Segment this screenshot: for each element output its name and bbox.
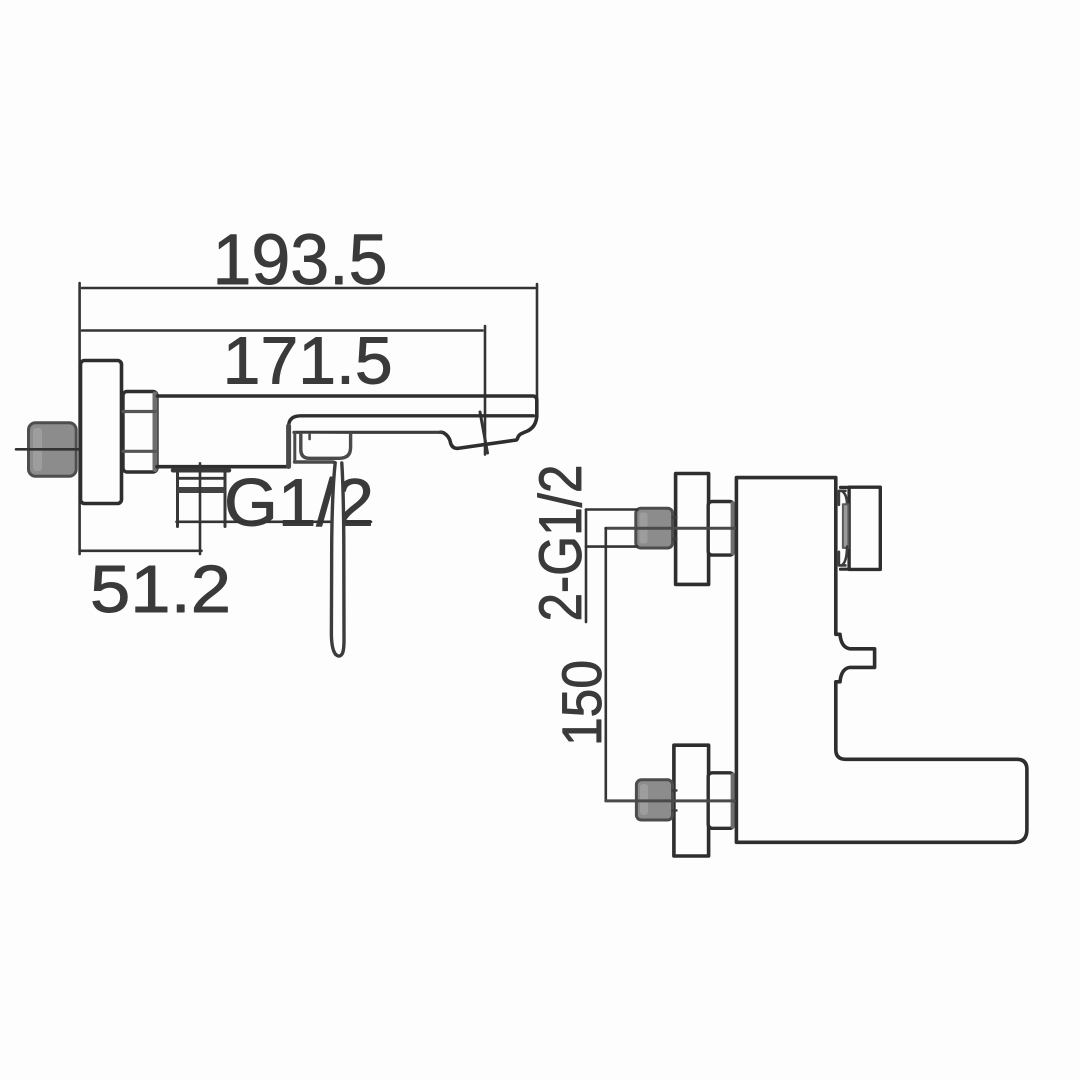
bottom hex nut xyxy=(708,773,734,829)
svg-text:193.5: 193.5 xyxy=(213,220,388,300)
svg-text:171.5: 171.5 xyxy=(223,324,393,399)
extension line right of 193.5 xyxy=(536,284,539,402)
svg-text:G1/2: G1/2 xyxy=(224,466,374,541)
knob collar bottom bracket xyxy=(839,547,847,566)
top inlet block highlight xyxy=(640,513,648,544)
shower outlet centerline xyxy=(199,463,202,554)
wall knob (gray) xyxy=(29,423,77,476)
dimension line 171.5 xyxy=(82,329,483,332)
hex nut (side view) xyxy=(123,392,157,473)
knob top edge extension xyxy=(841,486,850,489)
extension line right of 171.5 xyxy=(484,326,487,455)
handle mount inner line xyxy=(293,433,296,461)
svg-text:2-G1/2: 2-G1/2 xyxy=(527,465,594,622)
bottom inlet block highlight xyxy=(640,784,648,815)
top wall flange (front) xyxy=(676,474,709,585)
dimension line 193.5 xyxy=(82,287,535,290)
grip tick xyxy=(308,435,311,440)
top inlet stem lines xyxy=(673,516,677,518)
diverter knob outer (right side) xyxy=(849,487,880,569)
shower outlet pipe left edge xyxy=(176,471,179,527)
wall flange plate xyxy=(81,361,122,504)
bottom inlet stem lines xyxy=(673,789,677,791)
knob collar gray band xyxy=(843,504,849,548)
handle mount left edge xyxy=(286,426,291,467)
dimension line 51.2 xyxy=(80,549,202,552)
lever handle grip xyxy=(301,434,351,459)
hex nut right shading xyxy=(153,394,158,470)
dimension line 150 (vertical) xyxy=(604,528,607,801)
leader line to inlet bottom xyxy=(586,545,637,548)
bottom hex nut right shading xyxy=(731,775,735,827)
spout underside line xyxy=(294,431,441,434)
bottom inlet centerline xyxy=(606,799,735,802)
bottom wall flange (front) xyxy=(674,745,709,856)
extension line left (serves 193.5 / 171.5 / 51.2) xyxy=(78,283,81,554)
spout body outline top xyxy=(158,396,537,417)
hex nut facet line upper xyxy=(123,410,155,413)
handle mount bottom edge xyxy=(295,462,337,466)
top hex nut right shading xyxy=(731,504,735,554)
top inlet centerline xyxy=(606,527,735,530)
top inlet block (gray) xyxy=(636,508,673,548)
top hex nut xyxy=(708,502,734,556)
body bottom edge xyxy=(157,465,289,469)
shower outlet thread band xyxy=(178,487,226,493)
G1/2 leader underline xyxy=(177,520,372,523)
spout underside right (outlet bump) xyxy=(441,416,537,449)
svg-text:150: 150 xyxy=(550,660,613,746)
svg-text:51.2: 51.2 xyxy=(90,552,231,627)
shower outlet flange line xyxy=(173,468,229,473)
shower outlet pipe right edge xyxy=(224,471,227,527)
2-G1/2 underline xyxy=(585,510,588,623)
oblique tick on 171.5 extension xyxy=(480,412,488,453)
knob bottom edge extension xyxy=(841,568,850,571)
leader line to inlet top xyxy=(586,508,637,511)
body with spout arm outline xyxy=(736,478,1027,843)
bottom inlet block (gray) xyxy=(636,780,672,820)
lever arm xyxy=(331,463,344,656)
knob collar top bracket xyxy=(839,491,847,505)
knob inner highlight xyxy=(33,428,42,471)
shower outlet pipe inner line xyxy=(178,477,226,480)
spout inner step line xyxy=(289,416,534,427)
knob centerline xyxy=(16,448,87,451)
hex nut facet line lower xyxy=(123,450,155,453)
